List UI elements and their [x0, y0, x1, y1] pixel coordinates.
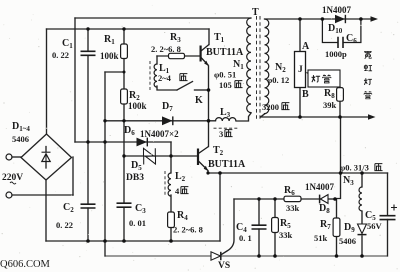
svg-text:C6: C6	[346, 33, 357, 45]
svg-text:3200: 3200	[262, 102, 279, 112]
wire D7 row y=120.8	[105, 120, 216, 122]
transformer core dashed lines	[257, 16, 261, 120]
svg-text:BUT11A: BUT11A	[208, 159, 246, 170]
svg-text:105: 105	[219, 80, 232, 90]
svg-text:220V: 220V	[2, 173, 23, 183]
relay J box	[295, 52, 306, 88]
svg-text:D9: D9	[344, 222, 355, 234]
label 灯管 lamp	[312, 75, 320, 82]
wire x=105 column	[104, 72, 106, 241]
svg-text:0. 01: 0. 01	[129, 218, 146, 228]
wire L1 bottom to switch K	[157, 86, 177, 90]
wire stub R1-R2 junction to x105	[105, 71, 124, 73]
wire relay branch x=300	[299, 19, 301, 117]
wire midpoint vertical T1.E to T2.C	[208, 66, 210, 147]
220V tilde	[10, 182, 16, 184]
svg-text:φ0. 12: φ0. 12	[267, 75, 289, 85]
wire lamp-box link	[306, 72, 309, 74]
svg-text:2~4: 2~4	[158, 73, 172, 83]
thyristor VS	[211, 252, 221, 260]
svg-text:φ0. 31/3: φ0. 31/3	[340, 163, 369, 173]
terminal circle 2	[6, 192, 12, 198]
inductor L2 core dash	[164, 171, 166, 196]
svg-text:1000p: 1000p	[325, 49, 347, 59]
capacitor C5 plus sign	[391, 205, 397, 211]
diode D8	[320, 195, 328, 204]
svg-text:L3: L3	[220, 107, 231, 119]
svg-text:33k: 33k	[286, 203, 300, 213]
svg-text:DB3: DB3	[126, 173, 144, 183]
diac D5 DB3	[144, 148, 156, 164]
resistor R5	[272, 218, 279, 233]
svg-text:C2: C2	[63, 202, 74, 214]
diode D10	[335, 15, 345, 23]
wire R7 column	[336, 199, 338, 256]
capacitor C5 electrolytic	[380, 216, 396, 220]
svg-text:5406: 5406	[339, 236, 356, 246]
svg-text:1N4007: 1N4007	[322, 5, 351, 15]
wire C4 column x=259	[258, 199, 260, 256]
svg-text:R6: R6	[284, 185, 295, 197]
svg-text:φ0. 51: φ0. 51	[214, 70, 236, 80]
svg-text:R1: R1	[104, 34, 115, 46]
svg-text:100k: 100k	[128, 101, 147, 111]
wire D8 to R7 node	[328, 198, 336, 200]
wire outer-left vertical x=75	[74, 18, 76, 142]
wire bridge bottom vertical to ground bus	[45, 180, 47, 241]
terminal circle 1	[6, 154, 12, 160]
svg-text:4: 4	[175, 186, 180, 196]
svg-text:0. 1: 0. 1	[239, 233, 252, 243]
svg-text:N3: N3	[343, 175, 354, 187]
inductor L3 horizontal	[216, 118, 236, 121]
svg-text:3: 3	[219, 129, 223, 139]
resistor R2	[121, 89, 128, 104]
wire bus1-bus2 link at x=105	[104, 241, 106, 256]
transformer secondary winding N2	[265, 19, 269, 114]
wire R1/R2/C3 column x=124	[123, 29, 125, 241]
svg-text:39k: 39k	[323, 100, 337, 110]
wire top outer bus	[75, 17, 251, 19]
wire bottom bus 1	[46, 240, 220, 242]
svg-text:Q606.COM: Q606.COM	[0, 259, 51, 270]
resistor R7	[333, 218, 340, 237]
wire bridge top vertical	[46, 29, 48, 134]
wire 220V terminal 1 lead	[12, 156, 21, 158]
capacitor C4	[252, 225, 267, 229]
wire gate row y=199	[234, 198, 320, 200]
capacitor C6 plates	[338, 37, 343, 48]
wire T2 emitter row y=173	[208, 172, 388, 174]
wire R5 column x=275	[274, 199, 276, 256]
svg-text:R3: R3	[170, 32, 181, 44]
svg-text:0. 22: 0. 22	[56, 220, 73, 230]
arrow lamp return to neon tube	[368, 114, 376, 120]
wire lamp return row y=117	[261, 116, 371, 118]
bridge rectifier D1-4 diamond	[21, 134, 72, 180]
svg-text:1N4007×2: 1N4007×2	[140, 129, 179, 139]
svg-text:T1: T1	[214, 32, 225, 44]
svg-text:T2: T2	[213, 145, 224, 157]
svg-text:D5: D5	[131, 160, 142, 172]
resistor R3	[169, 53, 185, 58]
svg-text:51k: 51k	[314, 233, 328, 243]
svg-text:R8: R8	[324, 88, 335, 100]
resistor R4	[168, 212, 175, 228]
capacitor C3	[117, 203, 132, 207]
wire R3 left lead down to L1	[156, 56, 158, 64]
svg-text:2. 2~6. 8: 2. 2~6. 8	[151, 44, 181, 54]
inductor L1	[154, 64, 157, 87]
diode D7	[162, 116, 173, 125]
svg-text:33k: 33k	[279, 230, 293, 240]
svg-text:L2: L2	[175, 171, 186, 183]
lamp box 灯管	[308, 70, 340, 87]
wire L2 column x=171	[170, 142, 172, 241]
inductor N3	[359, 187, 362, 211]
svg-text:J: J	[298, 65, 303, 75]
resistor R8	[337, 88, 344, 102]
wire L3 right lead to N1 bottom	[236, 113, 251, 121]
wire x=340 vertical lamp-return to D8 node	[335, 117, 341, 199]
wire bridge right vertex riser	[72, 157, 74, 195]
inductor L1 core dash	[149, 61, 151, 90]
svg-text:BUT11A: BUT11A	[206, 47, 244, 58]
svg-text:R5: R5	[280, 218, 291, 230]
svg-text:D8: D8	[319, 203, 330, 215]
wire R3 leads	[157, 55, 200, 57]
wire D6 row y=142	[75, 141, 171, 143]
svg-text:N2: N2	[275, 62, 286, 74]
inductor L3 core dash	[214, 127, 240, 129]
wire bottom bus 2	[105, 255, 387, 257]
wire 220V terminal 2 lead	[12, 194, 73, 196]
wire N3 column x=362	[361, 173, 363, 256]
svg-text:0. 22: 0. 22	[52, 50, 69, 60]
svg-text:1N4007: 1N4007	[305, 182, 334, 192]
label neon tube vertical 霓虹灯管	[364, 51, 371, 58]
bridge inner diode D1-4	[42, 152, 51, 161]
bridge inner diode leads	[45, 147, 47, 169]
wire R8 branch x=340	[339, 87, 341, 117]
svg-text:5406: 5406	[12, 134, 29, 144]
wire inner top bus (bridge + to C1,R1,T1 collector)	[47, 28, 210, 30]
svg-text:2. 2~6. 8: 2. 2~6. 8	[173, 225, 203, 235]
resistor R1	[121, 44, 128, 59]
svg-text:R4: R4	[177, 210, 188, 222]
inductor L2	[168, 173, 171, 196]
capacitor C1	[81, 51, 96, 55]
wire diac row y=156 to T2 base	[124, 155, 198, 157]
svg-text:VS: VS	[218, 261, 230, 271]
wire T1 collector riser	[208, 29, 210, 45]
arrow top right to neon tube	[371, 16, 379, 22]
svg-text:100k: 100k	[100, 51, 119, 61]
svg-text:B: B	[302, 89, 309, 100]
transistor T2	[198, 147, 209, 174]
capacitor C6 loop	[322, 19, 361, 43]
svg-text:C1: C1	[62, 38, 73, 50]
diode D9	[358, 224, 367, 235]
wire riser bus1 to emitter row x=220	[219, 173, 221, 241]
wire N2 bottom lead	[261, 114, 265, 117]
svg-text:A: A	[302, 41, 310, 52]
wire VS gate lead	[222, 199, 235, 255]
resistor R6	[284, 196, 301, 201]
svg-text:K: K	[195, 95, 203, 106]
svg-text:C3: C3	[135, 203, 146, 215]
svg-text:D7: D7	[162, 101, 173, 113]
svg-text:D10: D10	[328, 23, 343, 35]
switch K blade	[177, 82, 193, 91]
wire C5 column x=387	[387, 173, 389, 256]
wire top right bus	[265, 18, 373, 20]
wire K contact to midpoint	[195, 89, 209, 91]
wire C1/C2 column x=88	[87, 29, 89, 241]
svg-text:D6: D6	[124, 125, 135, 137]
transformer T primary winding N1	[247, 18, 251, 113]
svg-text:56V: 56V	[367, 221, 383, 231]
diode D6	[137, 138, 148, 147]
capacitor C2	[81, 204, 96, 208]
svg-text:T: T	[252, 7, 259, 18]
svg-text:R7: R7	[320, 219, 331, 231]
svg-text:D1~4: D1~4	[12, 121, 30, 133]
transistor T1	[201, 45, 209, 67]
